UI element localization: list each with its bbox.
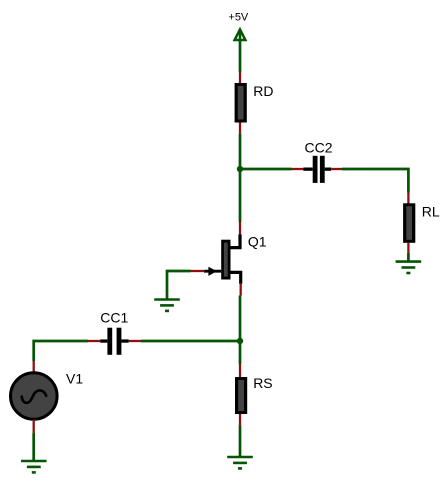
wire CC1 to V1 bbox=[34, 341, 88, 361]
svg-text:CC2: CC2 bbox=[305, 140, 333, 156]
wire RL to ground bbox=[407, 253, 410, 262]
svg-text:Q1: Q1 bbox=[248, 234, 267, 250]
svg-text:RL: RL bbox=[422, 204, 440, 220]
svg-text:RD: RD bbox=[253, 83, 273, 99]
pin RS top bbox=[239, 364, 241, 378]
wire power to RD bbox=[239, 41, 242, 72]
capacitor CC2 bbox=[303, 156, 331, 183]
pin RL bottom bbox=[407, 243, 409, 253]
wire gate to ground bbox=[167, 271, 191, 300]
svg-text:CC1: CC1 bbox=[100, 309, 128, 325]
pin Q1 gate bbox=[191, 270, 205, 272]
pin V1 plus bbox=[33, 361, 35, 373]
wire V1 to ground bbox=[32, 433, 35, 462]
ground RL bbox=[396, 262, 422, 273]
node source junction bbox=[237, 338, 243, 344]
wire RS to ground bbox=[239, 426, 242, 458]
wire node to CC2 bbox=[240, 168, 292, 171]
source V1 bbox=[11, 373, 58, 420]
pin CC1 right bbox=[129, 340, 141, 342]
pin CC2 left bbox=[292, 168, 306, 170]
resistor RD bbox=[235, 83, 247, 123]
pin CC1 left bbox=[88, 340, 101, 342]
wire source to RS (node column) bbox=[239, 296, 242, 365]
resistor RS bbox=[235, 377, 247, 414]
wire RD to Q1 drain (node column) bbox=[239, 134, 242, 222]
pin RD top bbox=[239, 72, 241, 84]
ground gate bbox=[154, 300, 180, 311]
transistor Q1 bbox=[204, 235, 241, 284]
ground RS bbox=[227, 457, 253, 468]
ground V1 bbox=[21, 461, 47, 472]
node drain junction bbox=[237, 166, 243, 172]
pin V1 minus bbox=[33, 420, 35, 434]
capacitor CC1 bbox=[100, 328, 128, 355]
svg-text:V1: V1 bbox=[66, 371, 83, 387]
power symbol +5V arrow bbox=[235, 29, 246, 41]
pin RS bottom bbox=[239, 414, 241, 426]
pin CC2 right bbox=[331, 168, 342, 170]
wire CC2 to RL bbox=[342, 169, 408, 193]
svg-text:+5V: +5V bbox=[228, 11, 249, 23]
pin RL top bbox=[407, 193, 409, 205]
svg-text:RS: RS bbox=[253, 375, 272, 391]
pin RD bottom bbox=[239, 123, 241, 135]
pin Q1 source bbox=[240, 284, 242, 296]
resistor RL bbox=[403, 203, 415, 243]
wire node to CC1 bbox=[141, 340, 240, 343]
pin Q1 drain bbox=[239, 222, 241, 235]
